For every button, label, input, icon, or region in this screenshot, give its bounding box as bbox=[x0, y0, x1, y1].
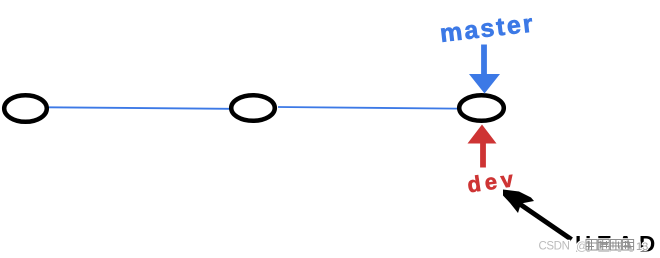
svg-text:CSDN: CSDN bbox=[539, 241, 570, 253]
svg-text:13: 13 bbox=[636, 241, 648, 253]
